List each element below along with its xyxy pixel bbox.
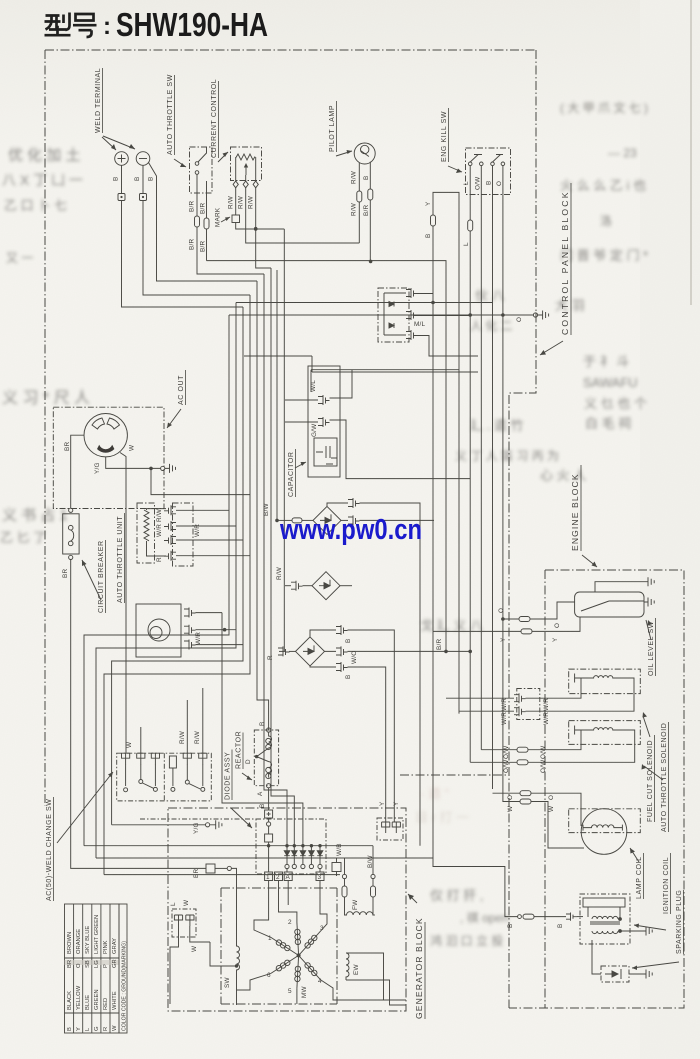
- winding arm 5: [297, 955, 299, 988]
- sparking plug: [601, 966, 629, 982]
- capacitor plug W/L: [318, 395, 330, 405]
- outer dash-dot frame top: [45, 49, 536, 51]
- generator inner partition dash-dot: [221, 888, 337, 1004]
- diode row bus: [269, 845, 320, 847]
- wires FW up to buses: [345, 846, 374, 875]
- rheostat: [236, 154, 255, 160]
- ignition coil windings: [592, 916, 618, 919]
- connector square on - wire: [140, 194, 147, 201]
- wire reactor bottom to connector: [268, 788, 270, 810]
- winding arm 2: [297, 922, 299, 955]
- generator main winding star MW: [267, 919, 324, 998]
- mark connector square: [232, 215, 240, 223]
- winding arm 3: [299, 931, 321, 956]
- wire arm6 elbow: [237, 973, 271, 990]
- auto throttle solenoid coil: [575, 726, 629, 735]
- auto throttle unit coil: [144, 510, 149, 541]
- wire pilot junction horizontal: [207, 261, 447, 652]
- sensor plugs: [184, 608, 196, 618]
- wire arm2 to connector 2: [279, 881, 297, 923]
- weld change sw plugs left: [122, 753, 130, 764]
- ignition coil dashed box: [577, 916, 583, 918]
- vertical feed capacitor: [283, 229, 285, 651]
- block labels: [408, 183, 597, 1019]
- BR connector: [193, 869, 200, 878]
- weld change sw label: [46, 797, 54, 901]
- outer dash-dot frame left: [44, 50, 46, 806]
- wire BR from receptacle: [71, 435, 84, 508]
- current control box: [231, 147, 262, 181]
- reactor coils: [257, 732, 272, 778]
- circuit breaker: [63, 514, 79, 554]
- auto throttle unit plugs: [164, 505, 176, 515]
- connector plugs on block: [406, 288, 418, 298]
- eng kill sw box: [466, 148, 511, 195]
- winding arm 6: [271, 955, 299, 973]
- wire B from + post: [121, 165, 123, 193]
- wire arm3 to connector 3: [320, 881, 327, 931]
- wire horizontal mid bus y315 with ground: [229, 314, 534, 316]
- oil level switch: [575, 592, 644, 617]
- weld change sw right half: [169, 756, 176, 768]
- lamp coil label: [636, 853, 644, 899]
- ac out dashed box: [53, 407, 164, 508]
- auto throttle sw label: [167, 74, 175, 155]
- wire from Y/G junction down: [151, 468, 250, 494]
- label GENERATOR BLOCK: [414, 917, 425, 1019]
- wire W from receptacle: [120, 453, 126, 754]
- wire Y/G ground from receptacle: [106, 457, 161, 468]
- circuit breaker ring top: [69, 508, 73, 512]
- diode in block: [389, 302, 394, 307]
- Y loop wire: [433, 192, 459, 713]
- pilot lamp: [354, 143, 375, 164]
- wire connector A stub: [287, 881, 289, 905]
- wire O to lamp coil: [493, 792, 521, 794]
- wire B to ignition coil: [433, 631, 518, 916]
- title glyph 型: [45, 16, 61, 22]
- auto throttle unit label: [117, 513, 125, 603]
- wire B diagonal third weld lead: [149, 163, 258, 282]
- Y/G ground wire: [112, 824, 206, 826]
- weld terminal - post: [136, 152, 150, 166]
- faint bleed-through text (back of page): [0, 100, 648, 948]
- auto throttle solenoid box: [569, 721, 641, 745]
- wire diamond3 to right bundle: [348, 650, 471, 652]
- capacitor plug G/W: [318, 417, 330, 427]
- wire BR down: [71, 560, 206, 869]
- pilot lamp label: [329, 101, 337, 152]
- junction to capacitor plugs: [285, 400, 318, 422]
- ignition coil body: [583, 898, 625, 907]
- winding SW: [237, 940, 240, 1005]
- wire to bundle from +: [122, 201, 244, 308]
- capacitor symbol box: [314, 438, 337, 466]
- color code table: [65, 904, 120, 1033]
- fuel cut solenoid label: [647, 735, 655, 822]
- long horizontals lower: [84, 845, 373, 847]
- ac receptacle: [84, 414, 127, 457]
- auto throttle sw contacts: [198, 147, 207, 162]
- wires EW loops: [346, 953, 406, 1005]
- diode bridge 1: [276, 270, 278, 520]
- wires into weld change sw tops: [141, 688, 203, 753]
- connector squares row: [268, 846, 270, 872]
- diode assy dash-dot box: [256, 819, 326, 874]
- wire from sensor top plug down to diode row: [222, 613, 303, 846]
- sensor box with circle: [136, 604, 181, 657]
- reactor terminals: [259, 722, 266, 726]
- connector block M/L box: [378, 288, 409, 342]
- L W plug connector box: [172, 909, 196, 937]
- weld change sw dash-dot box: [117, 753, 212, 801]
- capacitor label: [288, 449, 296, 497]
- current control label: [211, 79, 219, 158]
- lamp coil dashed box: [569, 809, 641, 833]
- connector block internals: [384, 293, 406, 335]
- wires from L W plugs: [170, 926, 210, 1004]
- winding arm 4: [299, 955, 321, 980]
- wire B from - post: [142, 165, 144, 193]
- eng kill sw label: [441, 108, 449, 162]
- wire arm5 stub: [296, 988, 298, 1004]
- ground at mid bus: [538, 311, 549, 320]
- label CONTROL PANEL BLOCK: [560, 183, 571, 335]
- lamp coil: [581, 809, 627, 855]
- diode assy label: [225, 750, 233, 801]
- capacitor assembly box: [308, 366, 340, 477]
- title glyph 号: [76, 14, 94, 21]
- engine block dash-dot box: [509, 570, 684, 1008]
- wires R/W x3: [228, 195, 235, 209]
- title 型号 : SHW190-HA: [45, 13, 97, 38]
- diode bridge 3 output plugs: [310, 630, 336, 667]
- generator block dash-dot box: [168, 808, 406, 1011]
- weld terminal + post: [115, 152, 129, 166]
- wire bundle central verticals: [84, 315, 229, 846]
- wire to bundle from -: [143, 201, 250, 296]
- mark label: [215, 207, 222, 227]
- circuit breaker label: [98, 540, 106, 613]
- wire arm1 to connector 1: [254, 881, 271, 937]
- ac out label: [178, 370, 186, 405]
- wires from auto throttle unit plugs: [176, 510, 250, 555]
- reactor label: [236, 731, 244, 769]
- wire O to oil level sw: [503, 618, 519, 620]
- oil level sw label: [648, 618, 656, 676]
- wires from connector block: [418, 294, 479, 357]
- page edge line right: [690, 0, 692, 305]
- oil level sw grounds: [595, 577, 654, 592]
- wire W to lamp coil: [503, 619, 520, 802]
- weld terminal label: [95, 68, 103, 133]
- sparking plug label: [676, 890, 684, 954]
- wire lower cross h: [244, 356, 478, 372]
- diode in block 2: [389, 323, 394, 328]
- auto throttle sw box: [190, 147, 213, 193]
- eng kill wire labels: [463, 181, 470, 185]
- Y plug pair box: [377, 818, 403, 840]
- control panel block dash-dot right boundary: [509, 50, 536, 1008]
- wires from sensor plugs: [196, 613, 244, 645]
- winding FW: [342, 874, 346, 878]
- wire arm4 to EW corner: [321, 980, 390, 1000]
- paper grain: [0, 0, 1, 1]
- wire B/R with fuses: [189, 201, 196, 212]
- ignition coil label: [663, 853, 671, 914]
- pilot lamp wires R/W and B: [358, 163, 360, 191]
- connector square on + wire: [118, 194, 125, 201]
- diode bridge 2: [276, 566, 283, 580]
- wire SW tap: [210, 942, 237, 966]
- diode bridge 3: [267, 655, 274, 660]
- reactor dashed box: [254, 730, 278, 786]
- current control terminals: [233, 181, 258, 188]
- eng kill contacts: [468, 162, 472, 166]
- wire Y to oil level sw: [433, 630, 521, 632]
- eng kill wires down: [469, 166, 471, 220]
- fuel cut solenoid coil: [575, 674, 629, 683]
- auto throttle unit box: [137, 503, 155, 563]
- label ENGINE BLOCK: [570, 465, 581, 551]
- wires O/W to auto throttle solenoid: [481, 749, 517, 751]
- fuel cut solenoid box: [569, 669, 641, 694]
- winding arm 1: [271, 937, 299, 955]
- wire to sparking plug: [592, 940, 601, 974]
- wires W/R to fuel cut solenoid: [446, 697, 514, 699]
- wire horizontal mid bus y302: [236, 302, 493, 304]
- control block lower dash-dot: [400, 774, 509, 776]
- auto throttle solenoid label: [661, 722, 669, 832]
- winding EW: [346, 953, 349, 980]
- diode column symbols: [284, 846, 323, 856]
- W/R connector pair box: [517, 689, 540, 720]
- pilot wires down to junctions: [359, 200, 370, 261]
